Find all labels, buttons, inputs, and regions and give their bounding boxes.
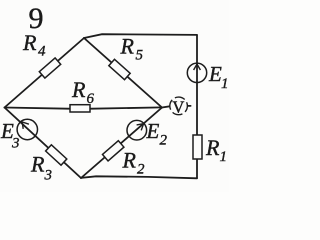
svg-text:4: 4 [38, 44, 46, 60]
svg-text:5: 5 [136, 48, 144, 64]
wire voltmeter to rail stub [188, 105, 191, 107]
wire left-node to bottom-node [5, 108, 82, 179]
resistor R2 [102, 141, 123, 161]
E3 arrowhead [22, 122, 29, 129]
wire top-node to top-right corner [84, 34, 197, 38]
svg-text:E: E [146, 119, 160, 143]
wire top-node to right-node [84, 38, 162, 108]
resistor R3 [46, 145, 67, 165]
EMF source E3 [17, 119, 37, 139]
svg-text:1: 1 [220, 149, 228, 165]
wire bottom-node to right-node [81, 108, 162, 179]
svg-text:R: R [205, 135, 220, 160]
svg-text:3: 3 [11, 136, 20, 152]
resistor R4 [39, 58, 60, 78]
wire bottom-node to bottom-right corner [81, 176, 197, 178]
wire right rail [196, 35, 198, 178]
svg-text:R: R [22, 30, 37, 55]
svg-text:2: 2 [137, 162, 145, 178]
resistor R5 [109, 59, 130, 79]
resistor R6 [70, 105, 90, 112]
paper background [0, 0, 229, 192]
wire right-node to voltmeter [162, 106, 171, 107]
EMF source E2 [127, 120, 147, 140]
svg-text:E: E [208, 62, 222, 86]
E2 arrowhead [137, 124, 144, 131]
wire left-node to top-node [5, 38, 85, 108]
EMF source E1 [187, 63, 206, 82]
voltmeter V [170, 97, 188, 116]
svg-text:R: R [122, 148, 137, 173]
E1 arrowhead [194, 64, 201, 70]
svg-text:R: R [120, 34, 135, 59]
svg-text:R: R [30, 152, 45, 177]
svg-text:R: R [71, 77, 86, 102]
resistor R1 [193, 135, 202, 159]
svg-text:6: 6 [87, 91, 95, 107]
svg-text:2: 2 [160, 133, 168, 149]
svg-text:3: 3 [44, 168, 53, 184]
svg-text:V: V [172, 97, 184, 116]
svg-text:1: 1 [221, 76, 229, 92]
wire left-node to right-node [5, 107, 163, 108]
